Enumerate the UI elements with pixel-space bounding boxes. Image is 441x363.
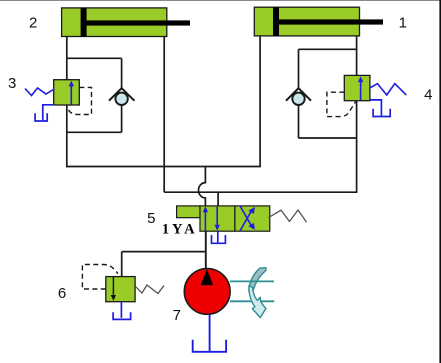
wire: left branch bottom horizontal <box>67 131 122 133</box>
motor drive line lower (teal) <box>230 300 274 302</box>
valve 5 (directional 4/2, solenoid + spring) <box>177 206 270 231</box>
valve3 tank <box>35 105 54 121</box>
wire: tap from line A to valve5 with hop <box>198 167 205 207</box>
valve5 spring (right, gray) <box>269 210 307 222</box>
wire: line A horizontal <box>66 166 260 168</box>
left square straight arrows <box>204 210 206 231</box>
wire: left branch top horizontal <box>67 57 122 59</box>
wire: line B horizontal <box>164 191 356 193</box>
wire: valve6 supply horizontal <box>122 251 206 253</box>
check valve CV2 <box>286 88 311 105</box>
wire: cyl2 right port down <box>163 37 165 193</box>
valve4 tank <box>370 100 391 117</box>
valve4 spring (blue, right) <box>370 84 407 95</box>
wire: valve6 supply vertical <box>121 252 123 277</box>
wire: valve4 top up to cyl1 right port <box>356 36 358 76</box>
valve6 spring (right, gray) <box>136 285 165 294</box>
valve5 X arrows <box>240 206 255 231</box>
svg-text:5: 5 <box>147 210 155 227</box>
valve 6 (relief) <box>106 277 135 302</box>
motor rotation ribbon, dark upper part (teal) <box>249 268 266 292</box>
svg-text:1YA: 1YA <box>162 222 198 238</box>
svg-text:1: 1 <box>399 15 407 32</box>
right window border <box>439 0 441 363</box>
valve 3 (pressure reducing) <box>54 80 80 105</box>
valve6 pilot (dashed) <box>82 265 118 290</box>
wire: tap from line B to valve5 <box>217 192 219 206</box>
wire: line B up to valve4 bottom <box>356 101 358 193</box>
pump tank <box>193 340 226 352</box>
check valve CV1 <box>109 88 134 105</box>
svg-text:4: 4 <box>424 86 432 103</box>
svg-text:7: 7 <box>173 307 181 324</box>
wire: right check valve bottom down <box>298 105 300 138</box>
wire: line A up to cyl1 left port <box>259 36 261 167</box>
motor drive line upper (teal) <box>230 280 274 282</box>
cylinder 2 <box>62 8 190 37</box>
valve3 spring (blue, left) <box>25 88 54 96</box>
valve4 pilot (dashed) <box>327 92 356 116</box>
motor rotation ribbon, light lower part with arrowhead (teal) <box>249 286 266 318</box>
cylinder 1 <box>254 7 383 36</box>
wire: right branch top horizontal <box>299 48 357 50</box>
wire: right branch down to check valve <box>298 49 300 89</box>
wire: valve3 bottom down to line A <box>66 105 68 167</box>
pump suction line (blue) <box>209 314 211 351</box>
wire: right branch bottom horizontal <box>299 137 357 139</box>
svg-text:3: 3 <box>8 75 16 92</box>
wire: P line valve5 to pump <box>205 231 207 269</box>
valve 4 (pressure reducing) <box>344 75 370 100</box>
wire: cyl2 left port down to valve3 <box>66 37 68 81</box>
pump 7 <box>184 269 230 315</box>
valve3 pilot (dashed) <box>67 87 91 114</box>
svg-text:2: 2 <box>29 15 37 32</box>
wire: left branch down to check valve <box>121 58 123 89</box>
valve6 tank <box>113 302 131 320</box>
valve5 tank <box>212 231 226 243</box>
top window border <box>0 0 441 1</box>
wire: check valve bottom down <box>121 105 123 133</box>
svg-text:6: 6 <box>58 285 66 302</box>
